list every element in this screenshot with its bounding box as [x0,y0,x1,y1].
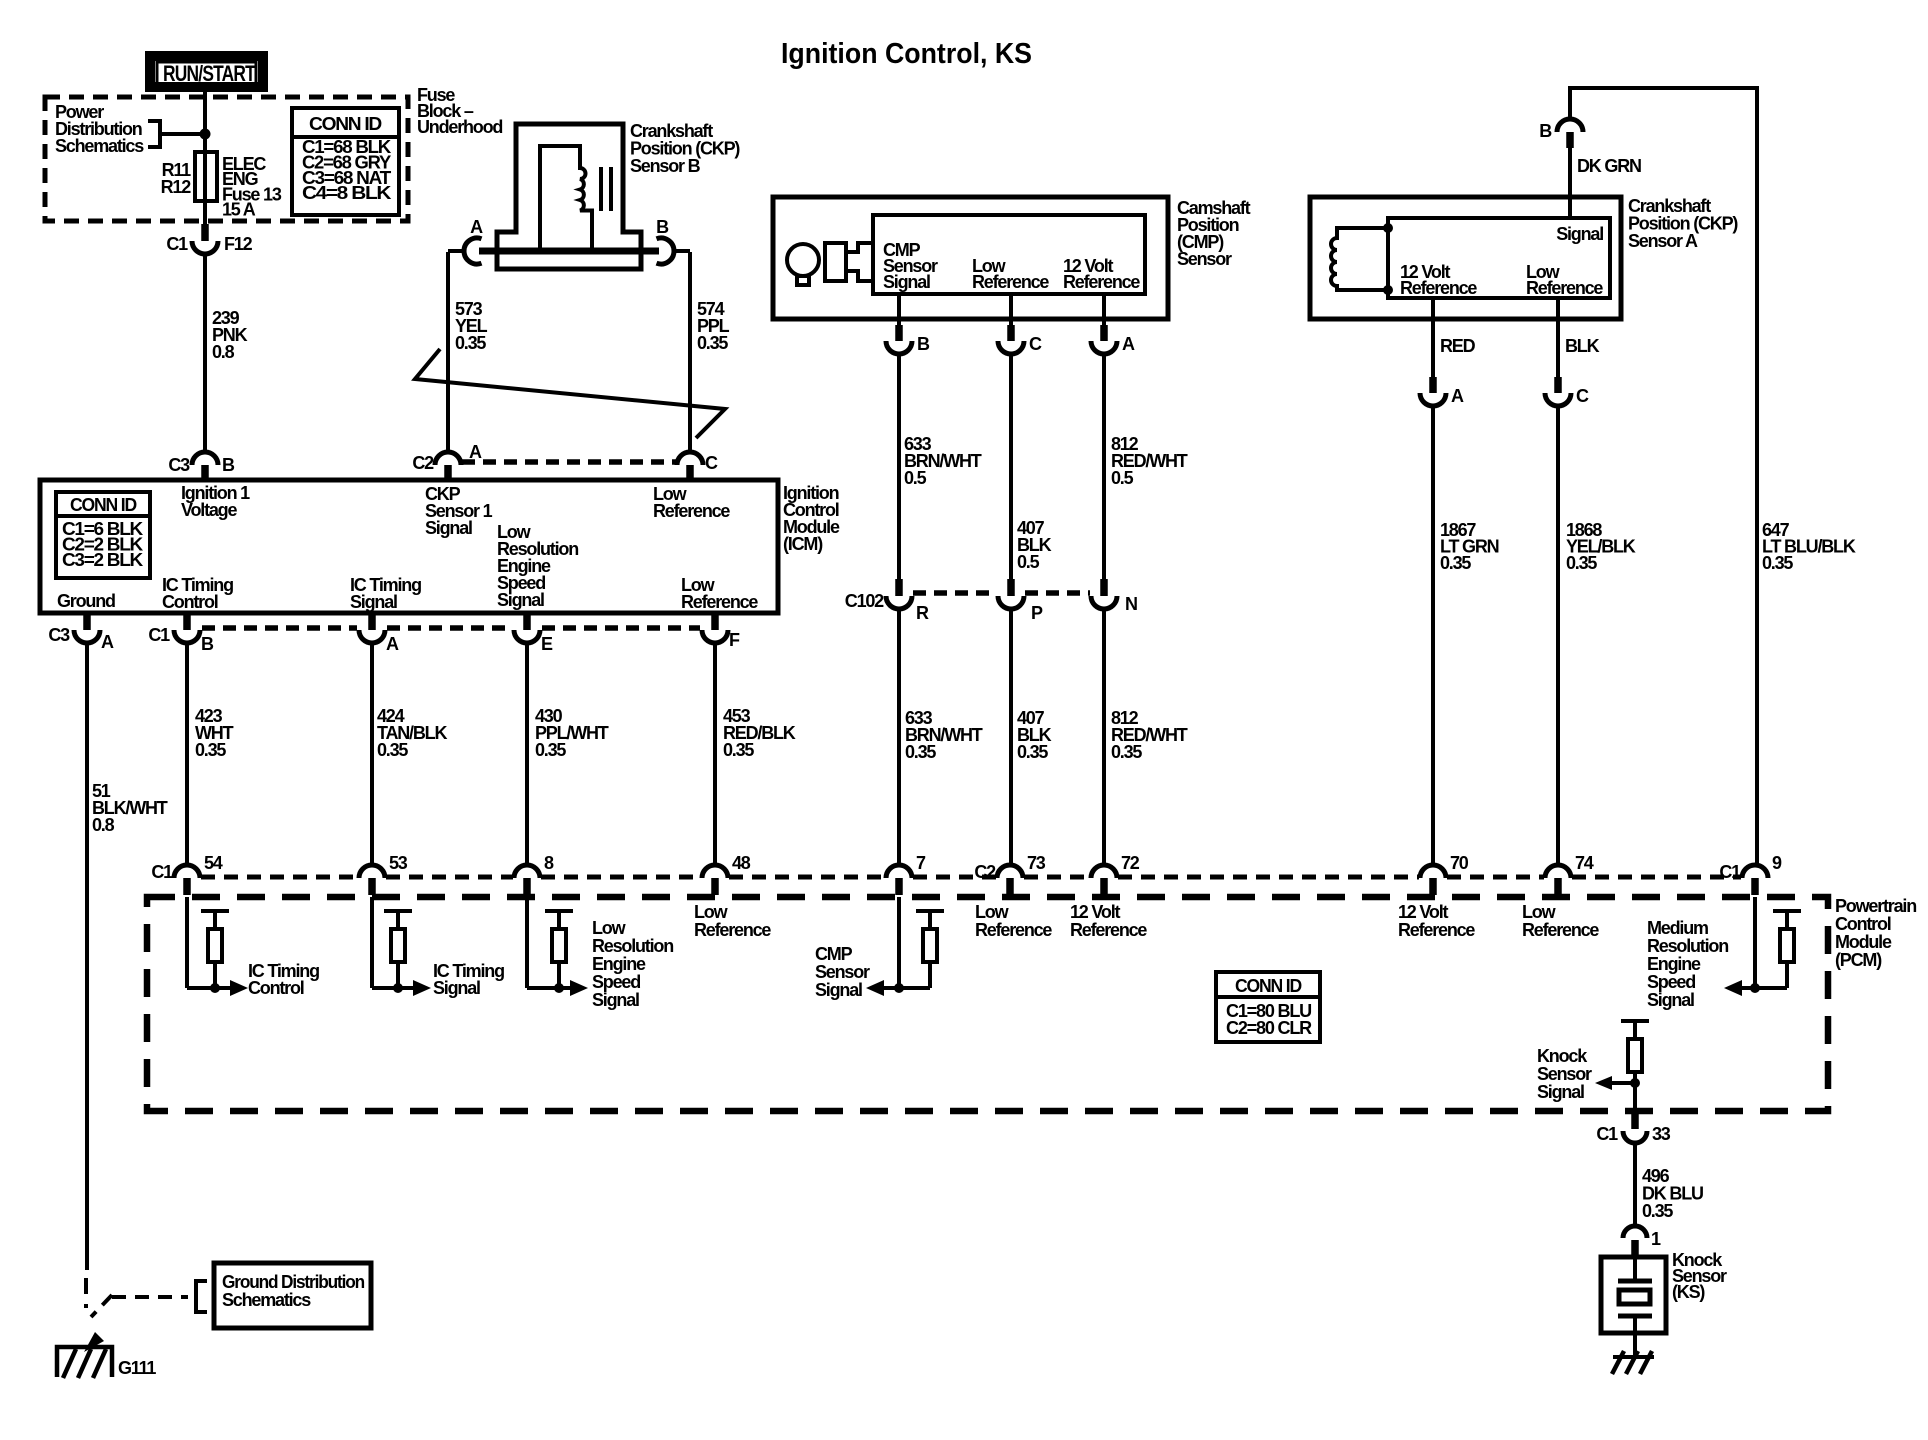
svg-text:Reference: Reference [1526,278,1603,298]
svg-text:Control: Control [1835,914,1891,934]
svg-text:Reference: Reference [1400,278,1477,298]
svg-text:A: A [386,634,399,654]
svg-text:0.35: 0.35 [905,742,936,762]
svg-text:33: 33 [1652,1124,1671,1144]
svg-text:Sensor B: Sensor B [630,156,701,176]
svg-text:Signal: Signal [425,518,472,538]
svg-text:0.35: 0.35 [195,740,226,760]
svg-text:0.35: 0.35 [1111,742,1142,762]
svg-text:53: 53 [389,853,408,873]
svg-text:Reference: Reference [1522,920,1599,940]
svg-text:C3: C3 [48,625,70,645]
svg-text:0.5: 0.5 [904,468,927,488]
svg-text:Ignition Control, KS: Ignition Control, KS [781,38,1032,70]
svg-text:C1: C1 [166,234,188,254]
svg-text:74: 74 [1575,853,1594,873]
svg-text:Signal: Signal [433,978,480,998]
svg-text:Sensor: Sensor [1177,249,1232,269]
svg-text:R12: R12 [161,177,192,197]
svg-text:B: B [656,217,669,237]
svg-text:12 Volt: 12 Volt [1398,902,1448,922]
svg-text:0.5: 0.5 [1111,468,1134,488]
svg-text:Reference: Reference [681,592,758,612]
svg-text:Signal: Signal [883,272,930,292]
svg-text:Ground Distribution: Ground Distribution [222,1272,364,1292]
svg-text:P: P [1031,603,1043,623]
svg-text:Engine: Engine [1647,954,1701,974]
svg-text:Speed: Speed [592,972,640,992]
svg-text:0.5: 0.5 [1017,552,1040,572]
svg-text:0.35: 0.35 [1017,742,1048,762]
svg-text:A: A [1122,334,1135,354]
svg-text:Knock: Knock [1537,1046,1588,1066]
svg-text:(PCM): (PCM) [1835,950,1882,970]
svg-text:72: 72 [1121,853,1140,873]
svg-text:Resolution: Resolution [1647,936,1728,956]
svg-text:(KS): (KS) [1672,1282,1705,1302]
svg-text:0.35: 0.35 [455,333,486,353]
svg-text:C1: C1 [1719,862,1741,882]
svg-text:Sensor: Sensor [815,962,870,982]
svg-text:Signal: Signal [497,590,544,610]
svg-text:Signal: Signal [350,592,397,612]
svg-text:Reference: Reference [972,272,1049,292]
svg-text:0.35: 0.35 [697,333,728,353]
svg-text:Medium: Medium [1647,918,1708,938]
svg-text:Low: Low [975,902,1010,922]
svg-text:Low: Low [694,902,729,922]
svg-text:Signal: Signal [592,990,639,1010]
svg-text:0.8: 0.8 [212,342,235,362]
svg-text:CMP: CMP [815,944,853,964]
svg-text:0.35: 0.35 [1566,553,1597,573]
svg-text:A: A [1451,386,1464,406]
svg-text:A: A [469,442,482,462]
svg-text:A: A [101,632,114,652]
svg-text:Reference: Reference [653,501,730,521]
svg-text:C3=2 BLK: C3=2 BLK [62,550,143,570]
svg-text:CONN ID: CONN ID [309,114,382,134]
svg-text:CONN ID: CONN ID [1235,976,1302,996]
svg-text:1: 1 [1651,1229,1661,1249]
svg-text:C1: C1 [151,862,173,882]
svg-text:F: F [729,630,740,650]
svg-text:Reference: Reference [694,920,771,940]
svg-text:48: 48 [732,853,751,873]
svg-text:C2: C2 [412,453,434,473]
svg-text:0.8: 0.8 [92,815,115,835]
svg-text:Signal: Signal [1537,1082,1584,1102]
svg-text:F12: F12 [224,234,253,254]
svg-text:N: N [1125,594,1137,614]
svg-text:DK GRN: DK GRN [1577,156,1641,176]
svg-text:Reference: Reference [1070,920,1147,940]
svg-text:Reference: Reference [975,920,1052,940]
svg-text:73: 73 [1027,853,1046,873]
svg-text:C: C [1576,386,1589,406]
svg-text:Sensor A: Sensor A [1628,231,1698,251]
svg-text:Schematics: Schematics [222,1290,311,1310]
svg-text:(ICM): (ICM) [783,534,823,554]
svg-text:B: B [201,634,214,654]
svg-text:C: C [1029,334,1042,354]
svg-text:B: B [222,455,235,475]
svg-text:Reference: Reference [1398,920,1475,940]
svg-text:0.35: 0.35 [535,740,566,760]
svg-text:0.35: 0.35 [1762,553,1793,573]
svg-text:Resolution: Resolution [592,936,673,956]
svg-text:0.35: 0.35 [1642,1201,1673,1221]
svg-text:C3: C3 [168,455,190,475]
svg-text:G111: G111 [118,1358,156,1378]
svg-text:C2: C2 [974,862,996,882]
svg-text:RUN/START: RUN/START [163,61,256,86]
svg-text:Low: Low [1522,902,1557,922]
svg-text:Low: Low [592,918,627,938]
svg-text:Engine: Engine [592,954,646,974]
svg-text:Control: Control [248,978,304,998]
svg-text:Reference: Reference [1063,272,1140,292]
svg-text:Ground: Ground [57,591,115,611]
svg-text:Module: Module [1835,932,1892,952]
svg-text:54: 54 [204,853,223,873]
svg-text:Control: Control [162,592,218,612]
svg-text:Voltage: Voltage [181,500,237,520]
svg-text:Underhood: Underhood [417,117,502,137]
svg-text:A: A [470,217,483,237]
svg-text:7: 7 [916,853,926,873]
svg-text:Signal: Signal [815,980,862,1000]
svg-text:12 Volt: 12 Volt [1070,902,1120,922]
svg-text:Schematics: Schematics [55,136,144,156]
svg-text:15 A: 15 A [222,200,256,220]
svg-text:CONN ID: CONN ID [70,495,137,515]
svg-text:0.35: 0.35 [377,740,408,760]
svg-text:B: B [1539,121,1552,141]
svg-text:9: 9 [1772,853,1782,873]
svg-text:E: E [541,634,553,654]
svg-text:70: 70 [1450,853,1469,873]
svg-text:C1: C1 [1596,1124,1618,1144]
svg-text:Speed: Speed [1647,972,1695,992]
svg-text:Sensor: Sensor [1537,1064,1592,1084]
svg-text:R: R [916,603,929,623]
svg-text:RED: RED [1440,336,1476,356]
svg-text:C: C [705,453,718,473]
svg-text:Signal: Signal [1647,990,1694,1010]
svg-text:Signal: Signal [1556,224,1603,244]
svg-text:0.35: 0.35 [1440,553,1471,573]
svg-text:C2=80 CLR: C2=80 CLR [1226,1018,1312,1038]
svg-text:BLK: BLK [1565,336,1600,356]
svg-text:B: B [917,334,930,354]
svg-text:C102: C102 [845,591,884,611]
svg-text:0.35: 0.35 [723,740,754,760]
svg-text:8: 8 [544,853,554,873]
svg-text:Powertrain: Powertrain [1835,896,1916,916]
svg-text:C4=8 BLK: C4=8 BLK [302,183,391,203]
svg-text:C1: C1 [148,625,170,645]
